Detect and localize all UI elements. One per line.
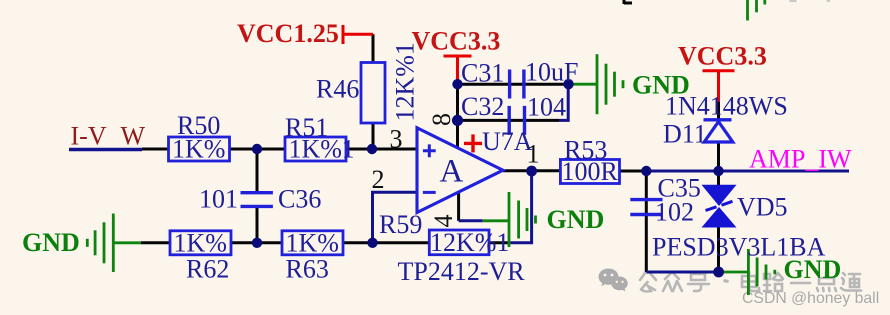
svg-text:CSDN @honey ball: CSDN @honey ball: [742, 290, 879, 307]
svg-text:VCC3.3: VCC3.3: [412, 27, 501, 56]
svg-text:VCC1.25: VCC1.25: [237, 19, 339, 48]
svg-text:A: A: [440, 154, 464, 190]
svg-text:100R: 100R: [562, 157, 619, 186]
svg-text:8: 8: [427, 113, 456, 126]
svg-text:12K%1: 12K%1: [430, 228, 509, 257]
svg-text:101: 101: [199, 185, 238, 214]
svg-text:VCC3.3: VCC3.3: [678, 42, 767, 71]
svg-text:C32: C32: [461, 92, 504, 121]
svg-text:1K%: 1K%: [172, 135, 225, 164]
svg-text:D11: D11: [663, 120, 707, 149]
svg-text:1: 1: [342, 135, 355, 164]
svg-text:104: 104: [527, 93, 566, 122]
svg-text:VD5: VD5: [737, 193, 788, 222]
svg-text:I-V: I-V: [71, 122, 107, 151]
svg-text:GND: GND: [22, 228, 80, 257]
svg-text:R63: R63: [286, 255, 329, 284]
svg-text:C31: C31: [461, 59, 504, 88]
svg-text:U7A: U7A: [482, 127, 533, 156]
svg-text:4: 4: [429, 215, 458, 228]
svg-text:GND: GND: [632, 71, 690, 100]
svg-text:R62: R62: [186, 255, 229, 284]
svg-text:3: 3: [390, 125, 403, 154]
svg-text:10uF: 10uF: [525, 58, 578, 87]
svg-text:1: 1: [527, 140, 540, 169]
svg-text:1K%: 1K%: [286, 228, 339, 257]
svg-text:C36: C36: [278, 185, 321, 214]
svg-text:R59: R59: [379, 210, 422, 239]
svg-text:2: 2: [372, 165, 385, 194]
svg-text:TP2412-VR: TP2412-VR: [398, 257, 526, 286]
svg-text:W: W: [121, 122, 146, 151]
svg-text:GND: GND: [547, 205, 605, 234]
svg-text:R46: R46: [316, 75, 359, 104]
svg-text:GND: GND: [784, 255, 842, 284]
svg-text:102: 102: [655, 198, 694, 227]
svg-text:1K%: 1K%: [174, 228, 227, 257]
svg-text:1K%: 1K%: [289, 135, 342, 164]
svg-text:AMP_IW: AMP_IW: [749, 145, 852, 174]
